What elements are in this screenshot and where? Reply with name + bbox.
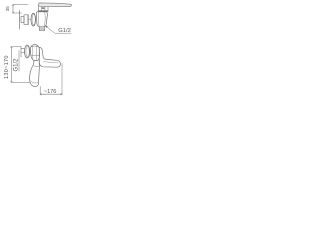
svg-text:~176: ~176 bbox=[44, 89, 57, 95]
svg-text:35: 35 bbox=[5, 6, 10, 12]
svg-text:130~170: 130~170 bbox=[4, 55, 10, 79]
svg-text:G1/2: G1/2 bbox=[58, 28, 71, 34]
